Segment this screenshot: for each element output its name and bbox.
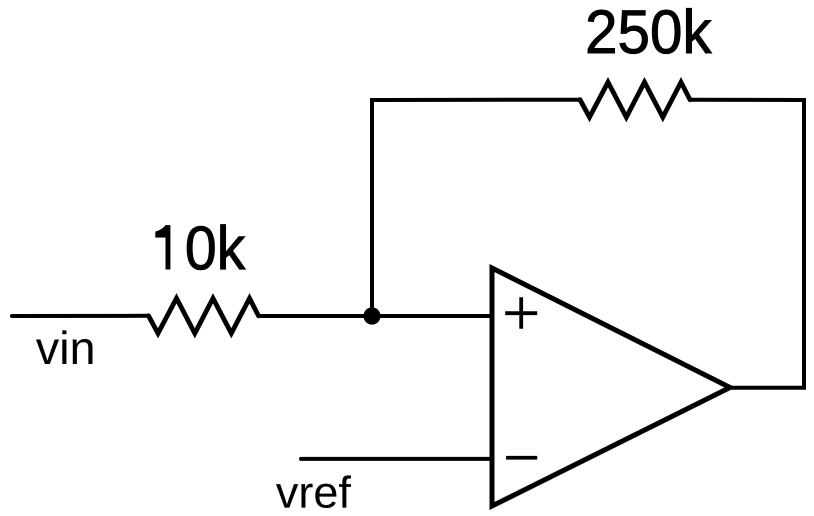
label vref [276,475,351,508]
label 250k [588,8,712,53]
wire vin input (left lead) [12,314,149,318]
wire feedback riser (node up to top rail, left segment) [372,100,580,316]
op-amp minus input symbol [506,456,537,460]
op-amp plus input symbol [505,297,537,328]
resistor 10k (input resistor) [149,298,259,333]
node junction dot [363,307,380,324]
label vin [36,330,93,364]
wire top rail right segment + right drop to output [690,100,804,388]
label 10k [156,225,246,270]
resistor 250k (feedback resistor) [580,82,690,117]
op-amp triangle U1 [492,268,730,506]
wire vref input [301,457,492,461]
wire from 10k through node to op-amp + input [259,314,493,318]
